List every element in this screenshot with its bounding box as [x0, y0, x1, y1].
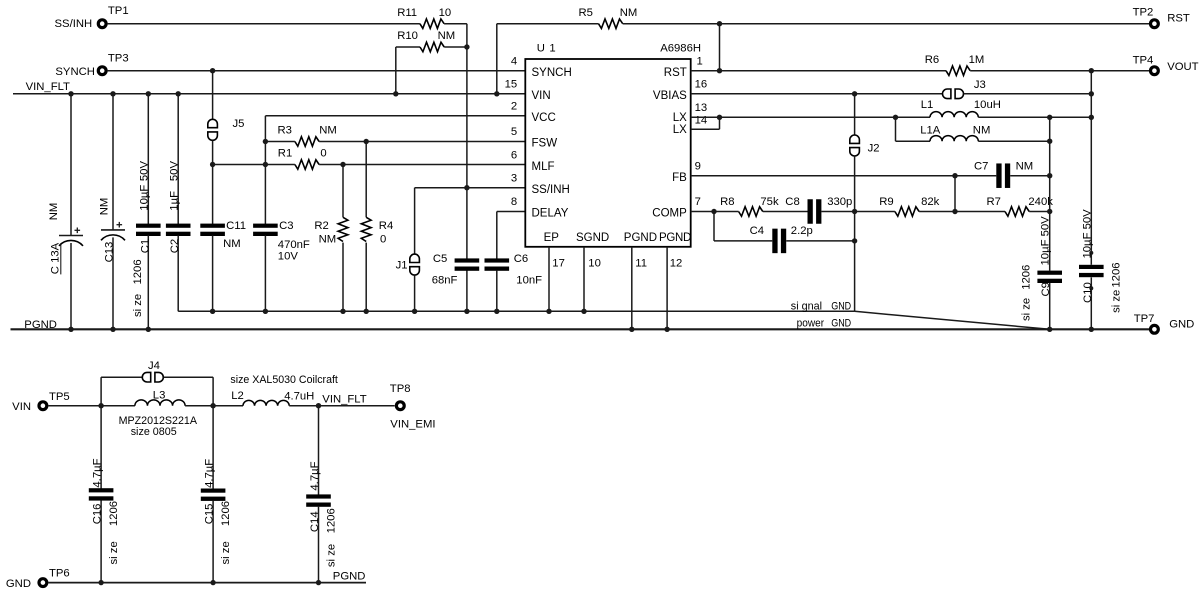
junction LX13/LX14 — [717, 115, 722, 120]
svg-text:C5: C5 — [433, 253, 447, 265]
wire SS/INH row — [415, 187, 526, 189]
svg-text:C3: C3 — [279, 220, 293, 232]
junction J3/VOUT column — [1089, 91, 1094, 96]
junction VIN_FLT/C13 — [110, 91, 115, 96]
svg-text:GND: GND — [831, 318, 851, 330]
testpoint TP2 — [1151, 20, 1159, 28]
wire FB-COMP vertical — [954, 176, 956, 212]
wire L2 to TP8 — [289, 405, 395, 407]
svg-text:SS/INH: SS/INH — [532, 184, 570, 196]
wire L3 to L2 — [185, 405, 243, 407]
wire R10 left vertical to VIN_FLT — [395, 47, 397, 94]
testpoint TP1 — [98, 20, 106, 28]
svg-text:0: 0 — [380, 233, 386, 245]
pin EP stub — [548, 247, 550, 311]
junction R5/RST vertical — [717, 21, 722, 26]
svg-text:FB: FB — [672, 172, 687, 184]
svg-text:C11: C11 — [226, 220, 246, 232]
wire LX pin13 row — [691, 116, 930, 118]
junction VCC-col/FSW — [263, 139, 268, 144]
junction R10/VIN_FLT — [393, 91, 398, 96]
svg-text:10µF: 10µF — [139, 185, 151, 211]
svg-text:LX: LX — [673, 124, 687, 136]
svg-text:14: 14 — [695, 115, 708, 127]
svg-text:si ze: si ze — [108, 541, 120, 564]
wire FB row — [691, 175, 997, 177]
capacitor C10 10uF 50V on VOUT column — [1090, 71, 1092, 265]
svg-text:C6: C6 — [514, 253, 528, 265]
jumper J5 — [212, 71, 214, 119]
svg-text:5: 5 — [511, 126, 517, 138]
junction VIN_FLT/C13A — [68, 91, 73, 96]
svg-text:NM: NM — [98, 198, 110, 216]
wire TP1 to R11 — [108, 23, 420, 25]
wire R5 left vertical — [496, 24, 498, 94]
resistor R5 (NM) — [497, 23, 599, 25]
svg-text:L1: L1 — [921, 99, 934, 111]
svg-text:1: 1 — [697, 55, 703, 67]
svg-text:VIN: VIN — [532, 90, 551, 102]
svg-text:SYNCH: SYNCH — [532, 67, 572, 79]
junction C10/power GND — [1089, 327, 1094, 332]
capacitor C1 10uF 50V — [147, 94, 149, 225]
svg-text:470nF: 470nF — [278, 239, 310, 251]
svg-text:1206: 1206 — [1020, 265, 1032, 290]
svg-text:9: 9 — [695, 160, 701, 172]
svg-text:EP: EP — [544, 232, 560, 244]
junction C8 line / J2 column — [852, 209, 857, 214]
svg-text:0: 0 — [320, 147, 326, 159]
svg-text:SYNCH: SYNCH — [55, 66, 95, 78]
svg-text:10µF 50V: 10µF 50V — [1040, 216, 1052, 266]
svg-text:4.7µF: 4.7µF — [92, 458, 104, 487]
junction R9/R7 node — [952, 209, 957, 214]
wire VCC branch — [265, 115, 525, 117]
junction C7 / C9 column — [1047, 173, 1052, 178]
svg-text:C8: C8 — [785, 196, 799, 208]
svg-text:C15: C15 — [204, 504, 216, 525]
svg-text:C16: C16 — [92, 504, 104, 525]
svg-text:R4: R4 — [379, 220, 393, 232]
svg-text:VCC: VCC — [532, 112, 556, 124]
svg-text:R2: R2 — [314, 220, 328, 232]
svg-text:NM: NM — [223, 238, 241, 250]
bottom GND rail — [48, 582, 366, 584]
svg-text:R3: R3 — [278, 125, 292, 137]
svg-text:L2: L2 — [231, 390, 244, 402]
svg-text:NM: NM — [1016, 160, 1034, 172]
testpoint TP6 — [39, 579, 47, 587]
svg-text:J1: J1 — [396, 260, 408, 272]
svg-text:C14: C14 — [309, 511, 321, 532]
capacitor C15 4.7uF — [212, 406, 214, 490]
junction L1 out / VOUT column — [1089, 115, 1094, 120]
junction RST/vertical — [717, 68, 722, 73]
svg-text:NM: NM — [48, 203, 60, 221]
wire COMP row / resistor R8 75k — [691, 211, 739, 213]
inductor L1A (NM) — [895, 117, 897, 141]
svg-text:J4: J4 — [148, 360, 160, 372]
capacitor C9 10uF 50V — [1049, 117, 1051, 270]
svg-text:50V: 50V — [168, 161, 180, 182]
resistor R9 82k — [895, 207, 919, 217]
svg-text:1206: 1206 — [108, 501, 120, 526]
junction FB/R9-R7 vertical — [952, 173, 957, 178]
svg-text:si ze: si ze — [132, 294, 144, 317]
svg-text:L3: L3 — [153, 389, 166, 401]
svg-text:1206: 1206 — [325, 508, 337, 533]
jumper J3 — [943, 89, 951, 99]
resistor R10 (NM) — [396, 46, 420, 48]
svg-text:1206: 1206 — [220, 501, 232, 526]
svg-text:TP2: TP2 — [1133, 7, 1154, 19]
svg-text:si ze: si ze — [1020, 298, 1032, 321]
junction L1 out / C9 column — [1047, 115, 1052, 120]
junction VIN_FLT/C2 — [176, 91, 181, 96]
wire RST row to R6 — [691, 70, 946, 72]
inductor L3 MPZ2012S221A — [135, 400, 185, 406]
svg-text:J3: J3 — [974, 79, 986, 91]
jumper J1 — [414, 188, 416, 254]
svg-text:L1A: L1A — [920, 124, 941, 136]
svg-text:3: 3 — [511, 172, 517, 184]
svg-text:R11: R11 — [397, 7, 417, 19]
svg-text:C1: C1 — [139, 239, 151, 253]
svg-text:PGND: PGND — [24, 319, 57, 331]
svg-text:COMP: COMP — [652, 208, 687, 220]
svg-text:LX: LX — [673, 112, 687, 124]
svg-text:2.2p: 2.2p — [791, 225, 813, 237]
capacitor C7 (NM) — [996, 163, 1001, 188]
svg-text:NM: NM — [620, 7, 638, 19]
wire VIN row — [48, 405, 135, 407]
svg-text:4.7uH: 4.7uH — [284, 390, 314, 402]
capacitor C13 (NM electrolytic) — [112, 94, 114, 230]
resistor R1 (0) on MLF — [213, 164, 295, 166]
svg-text:1µF: 1µF — [168, 191, 180, 211]
svg-text:size XAL5030 Coilcraft: size XAL5030 Coilcraft — [230, 374, 338, 386]
testpoint TP8 — [396, 402, 404, 410]
junction R3/R4 — [364, 139, 369, 144]
jumper J4 branch — [100, 377, 102, 406]
svg-text:4.7µF: 4.7µF — [204, 459, 216, 488]
junction GND/C16 — [98, 580, 103, 585]
pin PGND stubs — [631, 247, 633, 329]
svg-text:si ze: si ze — [325, 544, 337, 567]
junction R10/R11 vertical — [464, 44, 469, 49]
wire VIN_FLT rail — [13, 93, 525, 95]
svg-text:RST: RST — [1167, 13, 1190, 25]
wire TP3 to U1 pin 4 (SYNCH) — [108, 70, 526, 72]
junction R7 / C9 column — [1047, 209, 1052, 214]
wire J5 to C11 — [212, 165, 214, 225]
svg-text:TP3: TP3 — [108, 53, 129, 65]
junction C9/power GND — [1047, 327, 1052, 332]
svg-text:C4: C4 — [750, 225, 764, 237]
junction J5/MLF — [210, 162, 215, 167]
svg-text:10V: 10V — [278, 251, 299, 263]
jumper J2 — [854, 94, 856, 135]
svg-text:8: 8 — [511, 196, 517, 208]
capacitor C4 2.2p — [713, 212, 715, 241]
svg-text:TP4: TP4 — [1133, 55, 1154, 67]
capacitor C6 10nF — [496, 212, 498, 260]
capacitor C3 470nF 10V — [253, 224, 278, 228]
testpoint TP7 — [1151, 325, 1159, 333]
svg-text:NM: NM — [319, 233, 337, 245]
svg-text:R7: R7 — [987, 196, 1001, 208]
resistor R7 240k — [1005, 207, 1029, 217]
svg-text:TP6: TP6 — [49, 568, 70, 580]
svg-text:A6986H: A6986H — [660, 43, 701, 55]
wire J3 to VOUT column — [964, 93, 1092, 95]
svg-text:PGND: PGND — [624, 232, 657, 244]
svg-text:PGND: PGND — [333, 571, 366, 583]
testpoint TP4 — [1151, 67, 1159, 75]
junction VIN_FLT/R5 vertical — [494, 91, 499, 96]
junction L3-L2/C15 — [210, 403, 215, 408]
svg-text:C2: C2 — [169, 239, 181, 253]
svg-text:GND: GND — [6, 578, 31, 590]
wire VBIAS row — [691, 93, 943, 95]
svg-text:VIN_FLT: VIN_FLT — [26, 81, 70, 93]
svg-text:R1: R1 — [278, 147, 292, 159]
svg-text:R9: R9 — [879, 196, 893, 208]
capacitor C16 4.7uF — [100, 406, 102, 489]
svg-text:U1: U1 — [537, 43, 560, 55]
svg-text:13: 13 — [695, 102, 708, 114]
svg-text:J2: J2 — [868, 143, 880, 155]
svg-text:68nF: 68nF — [432, 275, 458, 287]
signal GND rail — [178, 310, 854, 312]
svg-text:C13: C13 — [104, 242, 116, 263]
svg-text:NM: NM — [973, 124, 991, 136]
svg-text:TP5: TP5 — [49, 391, 70, 403]
svg-text:TP8: TP8 — [390, 383, 411, 395]
svg-text:MLF: MLF — [532, 161, 555, 173]
wire LX pin14 row — [691, 128, 720, 130]
wire vertical TP1/SS-INH net x467 — [466, 24, 468, 260]
svg-text:C10: C10 — [1082, 282, 1094, 303]
svg-text:TP1: TP1 — [108, 5, 129, 17]
svg-text:82k: 82k — [921, 196, 940, 208]
junction L1A / C9 column — [1047, 139, 1052, 144]
junction LX/L1A branch — [893, 115, 898, 120]
svg-text:R6: R6 — [925, 54, 939, 66]
svg-text:FSW: FSW — [532, 137, 558, 149]
junction R1/R2 — [340, 162, 345, 167]
svg-text:6: 6 — [511, 149, 517, 161]
resistor R4 (0) to GND — [365, 142, 367, 218]
svg-text:power: power — [797, 318, 825, 330]
svg-text:330p: 330p — [827, 196, 852, 208]
svg-text:VIN_FLT: VIN_FLT — [322, 394, 366, 406]
resistor R11 — [420, 19, 444, 29]
svg-text:GND: GND — [831, 301, 851, 313]
svg-text:15: 15 — [505, 79, 518, 91]
pin SGND stub — [583, 247, 585, 311]
junction GND/C14 — [316, 580, 321, 585]
junction VIN/C16 — [98, 403, 103, 408]
svg-text:VBIAS: VBIAS — [653, 90, 687, 102]
svg-text:10µF 50V: 10µF 50V — [1082, 209, 1094, 259]
junction SYNCH/J5 — [210, 68, 215, 73]
svg-text:NM: NM — [319, 125, 337, 137]
capacitor C13A (NM electrolytic) — [70, 94, 72, 236]
svg-text:10: 10 — [439, 7, 452, 19]
svg-text:1M: 1M — [969, 54, 985, 66]
svg-text:12: 12 — [670, 258, 683, 270]
svg-text:R10: R10 — [397, 30, 418, 42]
wire DELAY row — [497, 211, 526, 213]
svg-text:C 13A: C 13A — [50, 242, 62, 274]
svg-text:SS/INH: SS/INH — [55, 18, 93, 30]
svg-text:DELAY: DELAY — [532, 208, 569, 220]
capacitor C11 (NM) — [200, 224, 225, 228]
testpoint TP3 — [98, 67, 106, 75]
resistor R3 (NM) on FSW — [265, 141, 295, 143]
svg-text:1206: 1206 — [1111, 262, 1123, 287]
capacitor C5 68nF — [455, 258, 480, 262]
svg-text:4.7µF: 4.7µF — [309, 461, 321, 490]
testpoint TP5 — [39, 402, 47, 410]
svg-text:J5: J5 — [233, 118, 245, 130]
svg-text:1206: 1206 — [132, 259, 144, 284]
svg-text:si gnal: si gnal — [791, 301, 822, 313]
svg-text:7: 7 — [695, 196, 701, 208]
wire signal-to-power GND diagonal — [855, 311, 1050, 329]
junction GND/C15 — [210, 580, 215, 585]
svg-text:NM: NM — [438, 30, 456, 42]
svg-text:VIN: VIN — [12, 401, 31, 413]
svg-text:TP7: TP7 — [1134, 313, 1155, 325]
svg-text:10: 10 — [588, 258, 601, 270]
resistor R6 1M — [946, 66, 970, 76]
capacitor C8 330p — [808, 199, 813, 224]
svg-text:16: 16 — [695, 79, 708, 91]
junction L2/C14 — [316, 403, 321, 408]
op-amp U1 IC body A6986H — [525, 59, 690, 247]
junction SS-INH/C5 vertical — [464, 185, 469, 190]
svg-text:75k: 75k — [760, 196, 779, 208]
svg-text:size 0805: size 0805 — [131, 426, 177, 438]
svg-text:17: 17 — [552, 258, 565, 270]
svg-text:2: 2 — [511, 101, 517, 113]
wire R11 to corner — [444, 23, 467, 25]
svg-text:10nF: 10nF — [516, 275, 542, 287]
power GND rail — [11, 328, 1150, 330]
svg-text:VIN_EMI: VIN_EMI — [390, 419, 435, 431]
capacitor C14 4.7uF — [318, 406, 320, 496]
svg-text:50V: 50V — [139, 161, 151, 182]
svg-text:R8: R8 — [720, 196, 734, 208]
svg-text:PGND: PGND — [659, 232, 691, 244]
inductor L1 10uH — [930, 112, 978, 118]
svg-text:si ze: si ze — [220, 541, 232, 564]
svg-text:RST: RST — [664, 67, 687, 79]
wire RST vertical — [719, 24, 721, 71]
svg-text:si ze: si ze — [1111, 290, 1123, 313]
svg-text:SGND: SGND — [576, 232, 609, 244]
svg-text:10uH: 10uH — [974, 99, 1001, 111]
junction VBIAS/J2 — [852, 91, 857, 96]
junction C4 / J2 column — [852, 238, 857, 243]
svg-text:C9: C9 — [1040, 282, 1052, 296]
junction VCC-col/MLF — [263, 162, 268, 167]
svg-text:VOUT: VOUT — [1167, 61, 1198, 73]
svg-text:4: 4 — [511, 55, 517, 67]
svg-text:C7: C7 — [974, 160, 988, 172]
svg-text:11: 11 — [635, 258, 647, 270]
inductor L2 4.7uH size XAL5030 Coilcraft — [243, 400, 289, 405]
junction R6 line / VOUT column — [1089, 68, 1094, 73]
capacitor C2 1uF 50V — [177, 94, 179, 225]
junction PGND pins — [629, 327, 634, 332]
resistor R2 (NM) to GND — [342, 165, 344, 218]
junction VIN_FLT/C1 — [146, 91, 151, 96]
svg-text:R5: R5 — [579, 7, 593, 19]
svg-text:GND: GND — [1169, 319, 1194, 331]
